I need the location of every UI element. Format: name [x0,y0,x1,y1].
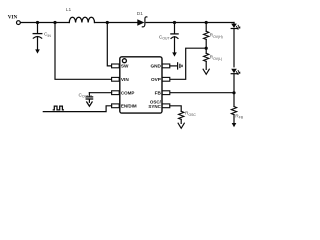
wire OVP node to OVP pad [170,48,206,79]
U1 pad pin 4 EN/DIM [112,104,120,108]
wire VIN pin tap to VIN pad [55,23,112,80]
ground ROSC [178,123,184,128]
junction CIN tap [36,21,39,24]
svg-text:CCOMP: CCOMP [79,92,93,98]
capacitor COUT [171,34,178,53]
junction OVP node [205,47,208,50]
resistor ROV(H) [204,31,209,39]
resistor RFB [231,107,236,115]
junction SW node [106,21,109,24]
wire dashed LED string [233,30,235,68]
wire ROV branch [205,23,207,32]
capacitor CCOMP [86,97,92,102]
wire SW node to SW pad [107,23,111,66]
ground RFB [232,123,237,127]
wire L1 to SW node [95,22,138,24]
ground CIN [35,49,40,53]
wire ROV(H) to OVP node [205,39,207,53]
svg-text:VIN: VIN [8,15,18,21]
wire COMP pad to CCOMP [89,92,111,94]
wire EN/DIM input [43,106,111,112]
wire FB node to RFB [233,93,235,107]
svg-text:FB: FB [155,90,162,95]
svg-text:OVP: OVP [151,77,161,82]
terminal VIN [17,21,21,25]
junction VIN pin tap [53,21,56,24]
svg-text:ROV(L): ROV(L) [210,55,223,61]
ground COUT [172,52,177,56]
U1 pin 1 indicator [122,59,126,63]
wire D1 cathode to output rail [146,22,234,24]
U1 pad pin 2 VIN [112,77,120,81]
svg-text:COMP: COMP [121,90,134,95]
svg-text:COUT: COUT [159,35,170,41]
inductor L1 [69,17,94,22]
wire RFB to ground [233,115,235,124]
LED D2 [231,24,240,30]
resistor ROSC [179,111,184,119]
wire GND pad to ground [170,65,178,67]
U1 pad pin 5 OSC/SYNC [162,104,170,108]
wire CCOMP branch [88,93,90,97]
svg-text:EN/DIM: EN/DIM [121,104,137,109]
wire ROSC to ground [180,119,182,123]
capacitor CIN [33,34,42,50]
junction FB node [232,91,235,94]
LED D3 [231,69,240,75]
wire input rail VIN to L1 [21,22,69,24]
svg-text:D1: D1 [137,11,143,17]
ground ROV(L) [203,69,209,74]
wire ROV(L) to ground [205,61,207,69]
junction ROV tap [205,21,208,24]
wire LED string to FB node [233,74,235,93]
wire FB node to FB pad [170,92,234,94]
svg-text:CIN: CIN [44,32,51,38]
U1 pad pin 1 SW [112,64,120,68]
resistor ROV(L) [204,53,209,61]
svg-text:SW: SW [121,64,129,69]
svg-text:SYNC: SYNC [148,104,161,109]
U1 pad pin 3 COMP [112,91,120,95]
svg-text:RFB: RFB [235,113,244,119]
wire output rail to LED string [233,23,235,24]
U1 pad pin 6 FB [162,91,170,95]
wire CIN branch [37,23,39,34]
junction COUT tap [173,21,176,24]
U1 pad pin 7 OVP [162,77,170,81]
svg-text:ROV(H): ROV(H) [210,33,223,39]
wire COUT branch [174,23,176,34]
ground CCOMP [87,102,92,106]
U1 pad pin 8 GND [162,64,170,68]
ground GND pin [178,63,182,69]
svg-text:GND: GND [150,64,161,69]
svg-text:L1: L1 [66,7,72,13]
IC U1 LED-driver body [120,57,162,113]
diode D1 [137,17,147,27]
svg-text:ROSC: ROSC [185,111,196,117]
wire OSC/SYNC pad to ROSC [170,106,181,112]
svg-text:VIN: VIN [121,77,129,82]
PWM pulse source symbol [53,106,63,110]
